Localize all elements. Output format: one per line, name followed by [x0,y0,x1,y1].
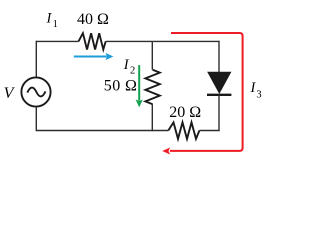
middle branch wire: top junction down to resistor R2 [151,41,153,69]
bottom wire: left corner to middle-branch bottom junction [36,130,152,132]
current arrow I1 (blue, pointing right) [74,53,114,60]
wire: middle-branch top junction to top-right corner [152,40,219,42]
svg-text:3: 3 [256,90,261,101]
right branch wire: diode D1 to bottom wire [218,95,220,131]
wire: R3 to right-branch bottom [199,130,219,132]
resistor R1 40Ω (horizontal zigzag) [79,33,106,49]
svg-text:2: 2 [130,66,135,77]
resistor R2 50Ω (vertical zigzag) [145,70,159,105]
right branch wire: top-right corner down to diode D1 [218,41,220,73]
svg-text:V: V [4,85,16,102]
middle branch wire: R2 down to bottom junction [151,104,153,131]
wire: top-left corner down to source V [35,41,37,78]
wire: source V down to bottom-left corner [35,107,37,132]
diode D1 (cathode down) [207,72,231,95]
source V (AC sinusoidal source) [21,77,50,106]
svg-text:I: I [46,10,53,26]
wire: bottom junction to resistor R3 [152,130,168,132]
wire: R1 to middle-branch top junction [106,40,153,42]
svg-text:I: I [123,57,130,73]
svg-text:1: 1 [53,19,58,30]
svg-text:20 Ω: 20 Ω [169,104,201,121]
current arrow I2 (green, pointing down) [136,65,143,107]
current path I3 (red loop with arrow) [162,33,242,155]
resistor R3 20Ω (horizontal zigzag in bottom wire) [168,122,199,138]
wire: top-left corner to resistor R1 [36,40,78,42]
svg-text:40 Ω: 40 Ω [77,11,109,28]
svg-text:50 Ω: 50 Ω [104,77,138,94]
